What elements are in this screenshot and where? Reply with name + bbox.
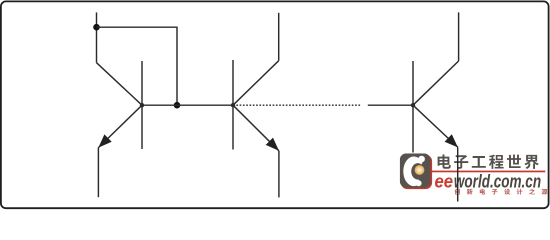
logo title 电子工程世界 [438, 155, 539, 169]
wire Q1 collector lead [96, 12, 98, 62]
arrow Q2 emitter [266, 138, 279, 151]
logo red underline [432, 171, 546, 173]
wire Q1 emitter lead [97, 148, 99, 198]
logo EEWorld icon [400, 151, 442, 195]
wire collector to base loop [97, 27, 178, 105]
arrow Q1 emitter [98, 134, 111, 147]
node Q1 crossing [140, 103, 144, 107]
wire Q3 emitter lead [457, 147, 459, 201]
node Q3 crossing [411, 103, 415, 107]
transistor Q3 [413, 61, 459, 153]
transistor Q1 [97, 61, 143, 149]
svg-text:ee: ee [435, 171, 454, 191]
wire base Q1-Q2 [142, 104, 233, 106]
wire Q3 collector lead [458, 12, 460, 61]
logo EEWorld icon red backplate [401, 155, 432, 189]
logo slogan 创新电子设计之源 [454, 189, 547, 195]
wire Q2 emitter lead [278, 151, 280, 198]
wire dotted base continuation [236, 104, 413, 106]
node Q2 crossing [231, 103, 235, 107]
svg-text:world.com.cn: world.com.cn [454, 171, 541, 191]
logo icon orange dot [415, 165, 425, 175]
arrow Q3 emitter [445, 134, 458, 147]
wire Q2 collector lead [278, 13, 280, 61]
node A collector-base tie [93, 24, 100, 31]
node B base junction [174, 102, 181, 109]
transistor Q2 [233, 60, 279, 151]
